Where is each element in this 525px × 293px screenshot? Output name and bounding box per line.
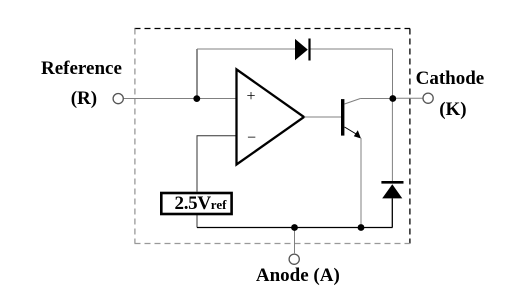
svg-text:+: + [247, 88, 256, 105]
svg-text:−: − [247, 130, 256, 147]
